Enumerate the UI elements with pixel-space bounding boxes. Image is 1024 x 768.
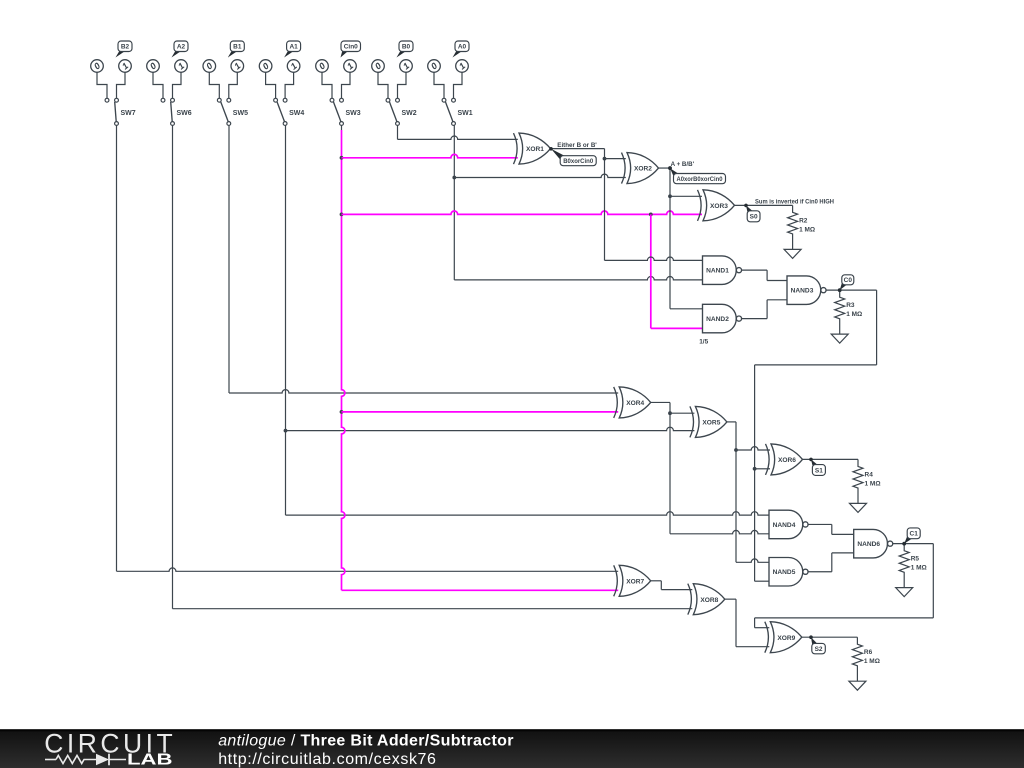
wire Cin0 net: row to XOR7 bottom input (342, 589, 619, 591)
svg-text:C1: C1 (910, 531, 919, 538)
label R4 value (865, 471, 881, 487)
logic input source "0" of SW4 (259, 60, 275, 98)
wire NAND1 out to NAND3 top input (742, 270, 787, 280)
svg-text:SW1: SW1 (458, 110, 473, 117)
label R3 value (846, 302, 862, 318)
junction A0xorB0xorCin0 at XOR3 top branch (668, 194, 672, 198)
svg-text:SW4: SW4 (289, 110, 304, 117)
net flag S0 (744, 204, 760, 222)
logic input source "1" of SW5 (229, 60, 244, 98)
svg-text:S2: S2 (815, 646, 823, 653)
svg-text:SW6: SW6 (177, 110, 192, 117)
svg-text:R2: R2 (799, 217, 808, 224)
ground (below R2) (784, 249, 801, 258)
junction B0xorCin0 at XOR2 top branch (603, 157, 607, 161)
svg-text:B2: B2 (121, 44, 130, 51)
wire Cin0 net: row to XOR3 bottom input (342, 211, 703, 214)
wire XOR4 out down (669, 402, 671, 533)
xor gate XOR7 (614, 565, 651, 596)
wire A0 net: row to NAND1 bottom input (454, 276, 702, 279)
annotation: A + B/B&#39; (671, 161, 695, 168)
wire C0 net: row leftwards (755, 364, 877, 366)
CircuitLab logo (44, 728, 173, 768)
annotation: Either B or B&#39; (557, 142, 597, 149)
resistor R2 (788, 205, 798, 249)
net label tag Cin0 (341, 41, 361, 58)
svg-text:NAND5: NAND5 (773, 569, 796, 576)
wire A0xorB0xorCin0 net: XOR2 output right (659, 167, 671, 169)
logic input source "1" of SW3 (342, 60, 357, 98)
wire Cin0 net: branch down to NAND2 (650, 214, 652, 328)
logic input source "0" of SW6 (147, 60, 163, 98)
svg-text:XOR1: XOR1 (526, 146, 544, 153)
svg-text:XOR4: XOR4 (626, 400, 644, 407)
wire B1 net: row to XOR4 top input (hop over A1) (229, 390, 618, 393)
svg-text:1 MΩ: 1 MΩ (864, 658, 880, 665)
wire C1 net: row to XOR9 top input (755, 627, 770, 629)
resistor R4 (853, 459, 863, 503)
wire XOR5 out right (727, 421, 736, 423)
net label tag B0 (397, 41, 414, 58)
svg-text:NAND3: NAND3 (791, 288, 814, 295)
svg-text:XOR6: XOR6 (778, 457, 796, 464)
junction Cin0 trunk at XOR4 row (340, 410, 344, 414)
wire B2 net: SW7 down (116, 126, 118, 572)
wire XOR4 out row to NAND4 bottom input (670, 530, 769, 533)
svg-text:1 MΩ: 1 MΩ (846, 311, 862, 318)
svg-text:A + B/B': A + B/B' (671, 161, 695, 168)
net flag C0 (838, 275, 854, 292)
wire XOR5 out row to NAND5 top input (736, 559, 769, 562)
label R6 value (864, 649, 880, 665)
xor gate XOR9 (765, 622, 802, 653)
svg-text:A1: A1 (289, 44, 298, 51)
wire A1 net: row to NAND4 top input (286, 512, 770, 515)
wire C0 net: down right side (876, 290, 878, 365)
SPDT switch SW3 (330, 98, 361, 125)
wire Cin0 net: stub below SW3 (341, 126, 343, 131)
footer url text (218, 751, 436, 768)
wire B0xorCin0 net: down (604, 149, 606, 261)
wire A2 net: SW6 down (172, 126, 174, 609)
svg-text:SW2: SW2 (402, 110, 417, 117)
SPDT switch SW7 (105, 98, 136, 125)
svg-text:Cin0: Cin0 (344, 44, 358, 51)
svg-text:antilogue / Three Bit Adder/Su: antilogue / Three Bit Adder/Subtractor (218, 732, 514, 749)
wire XOR5 out row to XOR6 top input (736, 447, 770, 450)
net label tag A0 (453, 41, 470, 58)
xor gate XOR8 (688, 584, 725, 615)
logic input source "1" of SW7 (117, 60, 132, 98)
wire A0xorB0xorCin0 net: down (669, 168, 671, 309)
svg-text:R5: R5 (911, 556, 920, 563)
junction Cin0 row at NAND2 branch (649, 213, 653, 217)
svg-text:SW3: SW3 (346, 110, 361, 117)
svg-text:A2: A2 (177, 44, 186, 51)
wire XOR4 out right (651, 401, 670, 403)
xor gate XOR6 (766, 444, 803, 475)
wire Cin0 net: row to XOR4 bottom input (342, 411, 619, 413)
net label tag A2 (172, 41, 189, 58)
svg-text:XOR9: XOR9 (777, 635, 795, 642)
logic input source "1" of SW4 (285, 60, 300, 98)
svg-text:NAND4: NAND4 (773, 522, 796, 529)
logic input source "0" of SW3 (316, 60, 332, 98)
SPDT switch SW5 (217, 98, 248, 125)
nand gate NAND4 (769, 510, 808, 539)
xor gate XOR3 (698, 190, 735, 221)
wire XOR7 out to XOR8 top input (651, 581, 693, 590)
wire Cin0 net: row to NAND2 bottom input (651, 327, 703, 329)
net label tag B1 (228, 41, 245, 58)
wire A0xorB0xorCin0 net: row to XOR3 top input (670, 195, 702, 197)
svg-text:B0: B0 (402, 44, 411, 51)
wire XOR4 out row to XOR5 top input (670, 412, 694, 414)
wire C0 net: NAND3 output right (826, 289, 876, 291)
svg-text:R4: R4 (865, 471, 874, 478)
logic input source "0" of SW5 (203, 60, 219, 98)
svg-text:Either B or B': Either B or B' (557, 142, 597, 149)
SPDT switch SW6 (161, 98, 192, 125)
svg-text:A0: A0 (458, 44, 467, 51)
junction A0xorB0xorCin0 at output (668, 166, 672, 170)
svg-text:R6: R6 (864, 649, 873, 656)
resistor R3 (835, 290, 845, 334)
junction Cin0 trunk at XOR1 row (340, 156, 344, 160)
wire C1 net: down to XOR9 top (754, 618, 756, 628)
wire Cin0 net: row to XOR1 bottom input (342, 154, 518, 157)
svg-text:B0xorCin0: B0xorCin0 (563, 158, 593, 165)
svg-text:C0: C0 (844, 277, 853, 284)
logic input source "1" of SW6 (173, 60, 188, 98)
wire A0 net: row to XOR2 bottom input (454, 174, 626, 177)
wire B0 net: row to XOR1 top input (hop over A0) (398, 136, 518, 139)
footer bar (0, 729, 1024, 768)
svg-text:http://circuitlab.com/cexsk76: http://circuitlab.com/cexsk76 (218, 751, 436, 768)
net flag S1 (809, 458, 825, 476)
nand gate NAND3 (787, 276, 826, 305)
wire B0xorCin0 net: XOR1 output right (551, 148, 605, 150)
net label tag B2 (116, 41, 133, 58)
ground (below R6) (849, 681, 866, 690)
annotation: 1/5 (699, 339, 708, 346)
xor gate XOR1 (514, 133, 551, 164)
logic input source "1" of SW1 (454, 60, 469, 98)
nand gate NAND1 (703, 256, 742, 285)
logic input source "1" of SW2 (398, 60, 413, 98)
wire A0 net: SW1 down (453, 126, 455, 280)
wire B0xorCin0 net: row to XOR2 top input (605, 158, 626, 160)
wire S0 net: XOR3 output to R2 (735, 204, 793, 206)
svg-text:1 MΩ: 1 MΩ (911, 565, 927, 572)
svg-text:S1: S1 (815, 467, 823, 474)
junction C1 at R5 / tag (902, 542, 906, 546)
net flag S2 (809, 635, 825, 653)
wire Cin0 net: magenta trunk down (342, 130, 345, 590)
wire B0 net: SW2 down (397, 126, 399, 140)
xor gate XOR2 (622, 153, 659, 184)
ground (below R4) (850, 503, 867, 512)
SPDT switch SW2 (386, 98, 417, 125)
wire A1 net: SW4 down (285, 126, 287, 516)
xor gate XOR4 (614, 387, 651, 418)
wire C1 net: down right side (932, 544, 934, 618)
label R2 value (799, 217, 815, 233)
wire B2 net: row to XOR7 top input (hop over A2) (117, 568, 619, 571)
footer title text (218, 732, 514, 749)
wire NAND5 out to NAND6 bottom input (808, 553, 854, 572)
svg-text:S0: S0 (750, 214, 758, 221)
junction C0 at R3 / tag (838, 288, 842, 292)
svg-text:NAND6: NAND6 (857, 541, 880, 548)
svg-text:A0xorB0xorCin0: A0xorB0xorCin0 (677, 176, 723, 183)
net flag B0xorCin0 (549, 147, 596, 166)
nand gate NAND6 (854, 529, 893, 558)
wire C0 net: down to NAND5 (754, 365, 756, 581)
wire NAND4 out to NAND6 top input (808, 524, 854, 534)
logic input source "0" of SW2 (372, 60, 388, 98)
SPDT switch SW1 (442, 98, 473, 125)
svg-text:Sum is inverted if Cin0 HIGH: Sum is inverted if Cin0 HIGH (755, 199, 834, 206)
svg-text:1 MΩ: 1 MΩ (799, 226, 815, 233)
ground (below R3) (831, 334, 848, 343)
svg-text:XOR5: XOR5 (702, 420, 720, 427)
wire A0xorB0xorCin0 net: row to NAND2 top input (670, 308, 703, 310)
svg-text:XOR7: XOR7 (626, 578, 644, 585)
junction Cin0 trunk at XOR3 row (340, 213, 344, 217)
wire A1 net: row to XOR5 bottom input (286, 427, 695, 430)
svg-text:NAND2: NAND2 (706, 316, 729, 323)
svg-text:XOR2: XOR2 (634, 166, 652, 173)
logic input source "0" of SW1 (428, 60, 444, 98)
label R5 value (911, 556, 927, 572)
SPDT switch SW4 (274, 98, 305, 125)
wire C1 net: NAND6 output right (893, 543, 934, 545)
logic input source "0" of SW7 (91, 60, 107, 98)
resistor R6 (852, 637, 862, 681)
svg-text:LAB: LAB (127, 752, 173, 768)
junction XOR4 out at XOR5 top branch (668, 411, 672, 415)
xor gate XOR5 (690, 406, 727, 437)
svg-text:B1: B1 (233, 44, 242, 51)
svg-text:XOR8: XOR8 (700, 597, 718, 604)
net flag A0xorB0xorCin0 (668, 166, 725, 183)
ground (below R5) (896, 588, 913, 597)
wire NAND2 out to NAND3 bottom input (742, 300, 787, 319)
wire XOR8 out to XOR9 bottom input (725, 599, 770, 647)
net flag C1 (902, 528, 920, 546)
svg-text:SW5: SW5 (233, 110, 248, 117)
annotation: Sum is inverted if Cin0 HIGH (755, 199, 834, 206)
wire A2 net: row to XOR8 bottom input (173, 608, 693, 610)
junction A1 net at XOR5 branch (284, 429, 288, 433)
svg-text:R3: R3 (846, 302, 855, 309)
junction XOR5 out at XOR6 branch (734, 448, 738, 452)
wire B1 net: SW5 down (228, 126, 230, 394)
wire B0xorCin0 net: row to NAND1 top input (605, 257, 703, 260)
resistor R5 (899, 544, 909, 588)
wire C0 net: row to XOR6 bottom input (755, 468, 770, 470)
wire S1 net: XOR6 output to R4 (803, 458, 859, 460)
junction C0 at XOR6 branch (753, 467, 757, 471)
nand gate NAND5 (769, 558, 808, 587)
svg-text:NAND1: NAND1 (706, 268, 729, 275)
junction A0 net at XOR2 branch (452, 176, 456, 180)
svg-text:SW7: SW7 (121, 110, 136, 117)
svg-text:XOR3: XOR3 (710, 203, 728, 210)
wire S2 net: XOR9 output to R6 (802, 636, 858, 638)
svg-text:1 MΩ: 1 MΩ (865, 480, 881, 487)
net label tag A1 (284, 41, 301, 58)
wire XOR5 out down (735, 422, 737, 562)
nand gate NAND2 (703, 304, 742, 333)
svg-text:1/5: 1/5 (699, 339, 708, 346)
wire C1 net: row leftwards (755, 617, 934, 619)
wire C0 net: row to NAND5 bottom input (755, 580, 769, 582)
